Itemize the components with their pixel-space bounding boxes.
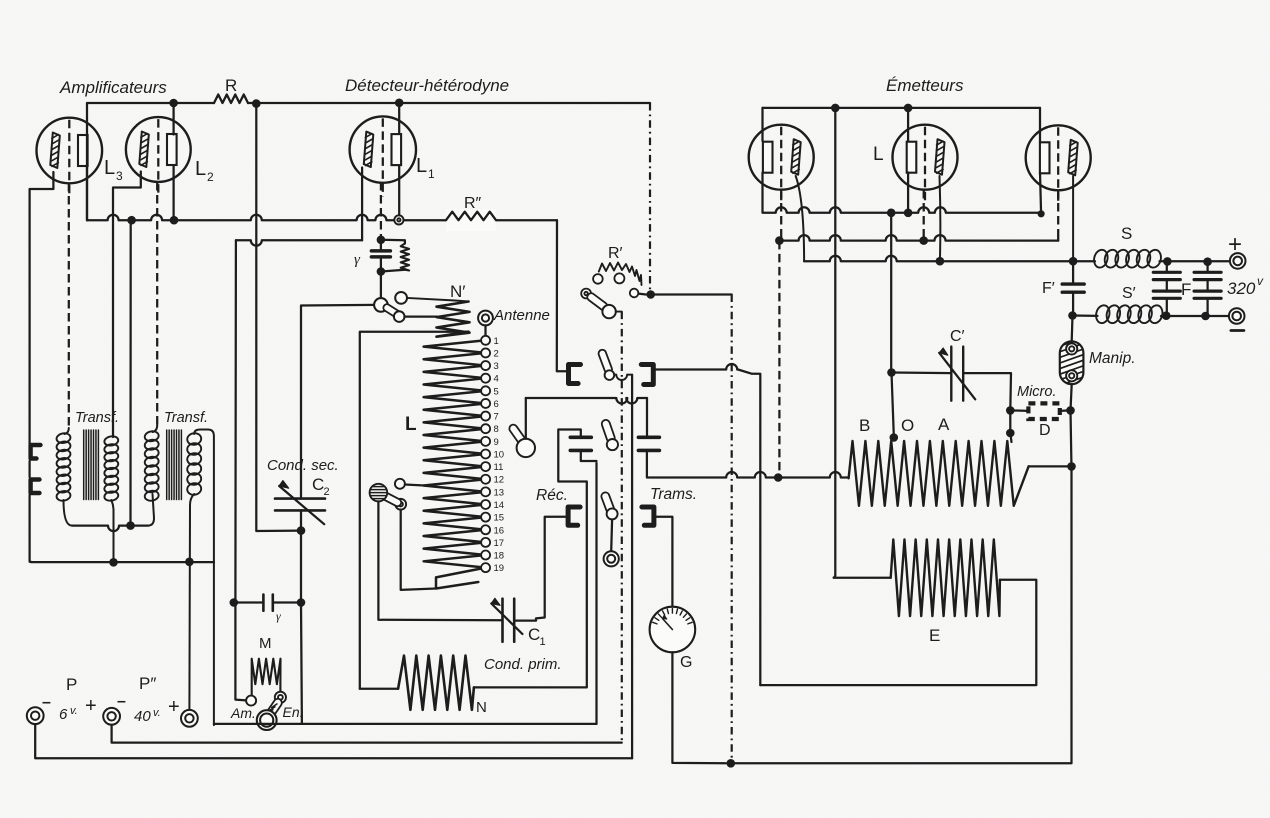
svg-text:6: 6	[59, 706, 68, 723]
svg-text:Transf.: Transf.	[75, 410, 119, 426]
switch contact ring N' lower	[394, 311, 405, 322]
wire low rail y=562	[31, 561, 214, 563]
rail P plates	[804, 256, 1073, 261]
switch lever jack row 2 with ring to Trams	[601, 492, 614, 512]
wire C2 node down to kappa node	[300, 531, 302, 603]
galvanometer G	[650, 607, 696, 653]
coil L zigzag with taps	[424, 340, 486, 588]
svg-text:Am.: Am.	[230, 705, 256, 721]
coil E	[891, 540, 1000, 617]
wire lever tip to vertical 632	[605, 370, 615, 380]
triode E3	[1026, 125, 1091, 190]
wire grid bus y=240 to L1 plate	[236, 240, 362, 245]
svg-text:N′: N′	[450, 282, 465, 301]
svg-text:40: 40	[134, 708, 151, 725]
wire L2 filament bottom to bus dot	[172, 166, 174, 221]
wire vertical 632 down to bottom bus	[631, 375, 633, 759]
wire L1 filament top	[398, 103, 400, 134]
selector lollipop circle	[517, 439, 535, 457]
wire T1 secondary bottom to low rail	[111, 500, 113, 562]
selector pivot ring	[395, 499, 406, 510]
wire L1 filament bottom to bus ring	[398, 166, 400, 215]
svg-text:8: 8	[494, 424, 499, 435]
wire D right node down	[1071, 410, 1072, 469]
svg-text:Réc.: Réc.	[536, 487, 568, 504]
svg-text:–: –	[42, 694, 51, 711]
svg-text:Cond. prim.: Cond. prim.	[484, 656, 562, 673]
switch lever Am-En	[266, 699, 282, 719]
node dot below C2	[297, 526, 306, 535]
tap circles coil L	[481, 336, 490, 345]
coil S'	[1094, 304, 1111, 325]
switch pivot circle jack row 2	[607, 508, 618, 519]
wire D leads	[1010, 409, 1028, 412]
svg-text:L: L	[873, 144, 884, 165]
capacitor Trams branch	[638, 435, 659, 439]
wire Trams jack to G meter	[654, 517, 673, 607]
node dot D left	[1006, 406, 1015, 415]
selector ball knob	[370, 484, 388, 502]
svg-text:C: C	[312, 475, 324, 494]
svg-text:C′: C′	[950, 328, 965, 345]
node dot T2-sec bottom on low rail	[185, 558, 194, 567]
wire filament bus y=220	[87, 215, 557, 220]
triode E1	[749, 125, 814, 190]
wire pivot to C2 branch	[301, 305, 374, 499]
svg-text:+: +	[85, 695, 97, 717]
switch lever jack row 1	[602, 420, 615, 442]
svg-text:Manip.: Manip.	[1089, 350, 1136, 367]
svg-text:6: 6	[494, 399, 499, 410]
node dots plus rail	[1163, 257, 1172, 266]
wire N' bottom to long left vertical	[360, 332, 469, 689]
node dot on filament bus x=131.6	[127, 216, 136, 225]
svg-text:4: 4	[494, 374, 499, 385]
resistor M	[252, 659, 281, 696]
node dot emitter bus x=908	[904, 104, 913, 113]
arrow C1	[491, 604, 522, 635]
node dot O tap	[890, 433, 899, 442]
transformer2 primary coil	[144, 430, 159, 442]
terminal P'' plus	[181, 710, 198, 727]
svg-text:10: 10	[494, 449, 505, 460]
svg-text:14: 14	[494, 500, 505, 511]
svg-text:+: +	[168, 696, 180, 718]
node dot A-coil end junction	[1067, 462, 1076, 471]
svg-text:L: L	[405, 414, 417, 435]
wire Rec-cap bottom lead	[581, 450, 597, 461]
triode L3	[37, 118, 103, 184]
wire bus2 corner down to kappa node	[234, 240, 237, 602]
wire terminal P'' to mid bus	[112, 725, 622, 743]
svg-text:2: 2	[207, 170, 214, 184]
wire branch from R-vertical to C2 node	[256, 104, 301, 531]
svg-text:15: 15	[494, 513, 505, 524]
wire C' left lead	[892, 371, 952, 374]
wire Rec jack to C1	[514, 517, 568, 621]
jack lower left	[31, 480, 40, 494]
wire L3 filament vertical	[86, 136, 88, 167]
capacitor C1	[501, 599, 504, 642]
wire top-left corner down to filament bus	[86, 103, 88, 220]
wire Trams-cap bottom to coil rail	[646, 450, 648, 476]
jack Rec	[568, 507, 580, 525]
transformer1 core	[84, 430, 99, 500]
switch lever between jack pair	[599, 350, 612, 373]
wiper lever R'	[587, 293, 607, 310]
wire L3 filament down to bus corner	[86, 167, 88, 221]
rail F filaments	[763, 207, 1042, 213]
wire G meter to bottom bus	[672, 652, 726, 763]
wire upper contact to N' coil	[407, 298, 469, 302]
wire lollipop up over to Trams cap	[526, 398, 647, 404]
node dot gamma top	[377, 236, 386, 245]
contact circle Am	[246, 696, 256, 706]
wire Manip down to D node	[1071, 384, 1072, 410]
terminal P'' minus	[103, 708, 120, 725]
switch pivot N'	[374, 298, 388, 312]
wire D left down to A tap	[1009, 410, 1011, 433]
coil N'	[437, 302, 470, 337]
wire T2 secondary bottom lead	[189, 494, 194, 710]
wire E coil right loop	[760, 580, 1036, 685]
transformer1 primary coil	[56, 432, 71, 444]
svg-text:2: 2	[324, 486, 330, 498]
svg-text:18: 18	[494, 551, 505, 562]
svg-text:E: E	[929, 626, 940, 645]
svg-text:Antenne: Antenne	[493, 307, 550, 324]
wire pivot down to ring	[610, 519, 613, 551]
wire L2 filament top	[172, 103, 174, 135]
svg-text:γ: γ	[276, 609, 281, 623]
wire E1 grid dash-dot to rails	[780, 190, 782, 241]
wiper ring R'	[581, 289, 591, 299]
switch contact circle N' upper	[395, 292, 407, 304]
node dot on filament bus x=174	[170, 216, 179, 225]
resistor R'' on filament bus	[446, 209, 496, 231]
svg-text:7: 7	[494, 412, 499, 423]
svg-text:Transf.: Transf.	[164, 410, 208, 426]
terminal minus 320V	[1229, 308, 1245, 324]
svg-text:v.: v.	[70, 705, 78, 717]
svg-text:Détecteur-hétérodyne: Détecteur-hétérodyne	[345, 76, 509, 95]
svg-text:L: L	[104, 157, 115, 179]
wire L2 grid dash-dot down to transformer2 primary	[156, 182, 158, 425]
node dot L2 filament top	[169, 99, 178, 108]
wire S'junction down to Manip	[1071, 316, 1074, 342]
wiper pivot circle R'	[602, 305, 615, 318]
wire bus3 from T2-sec to Rec-cap corner	[214, 723, 597, 725]
wire bus dot down to T1 rail	[129, 221, 131, 526]
svg-text:1: 1	[494, 336, 499, 347]
wire lower contact to N' coil tap	[405, 315, 438, 317]
wire gamma node down to switch pivot	[380, 272, 382, 299]
svg-text:17: 17	[494, 538, 505, 549]
stud circles R'	[593, 274, 603, 284]
svg-text:v: v	[1257, 274, 1264, 288]
node dots rail P	[936, 257, 945, 266]
svg-text:12: 12	[494, 475, 505, 486]
capacitor F'	[1072, 261, 1074, 283]
transformer1 secondary coil	[104, 435, 119, 446]
svg-text:En.: En.	[283, 704, 304, 720]
jack Trams	[642, 507, 654, 525]
node dot kappa right	[297, 598, 306, 607]
wire E2 filament leads	[907, 108, 909, 141]
resistor gamma leak vertical	[381, 240, 405, 244]
svg-text:P: P	[66, 675, 77, 694]
node dot on T1 rail	[126, 521, 135, 530]
coil S	[1073, 260, 1095, 262]
capacitor gamma	[371, 249, 390, 253]
svg-text:F: F	[1181, 280, 1191, 299]
svg-text:R″: R″	[464, 195, 482, 212]
svg-text:B: B	[859, 416, 870, 435]
terminal Antenne	[478, 311, 493, 326]
wire R'' corner down to jack	[557, 220, 568, 371]
wire S to plus terminal	[1160, 260, 1230, 262]
svg-text:320: 320	[1227, 279, 1256, 298]
wire 891 vertical rail F to coil O	[890, 213, 892, 373]
selector contact circle on coil L	[395, 479, 405, 489]
svg-text:9: 9	[494, 437, 499, 448]
wire C2 line T junction on bus3	[300, 603, 303, 724]
triode E2	[893, 125, 958, 190]
svg-text:11: 11	[494, 462, 504, 473]
wire E1 plate lead curving to rail P	[796, 176, 804, 261]
svg-text:1: 1	[428, 167, 435, 181]
arrow C2	[279, 486, 324, 524]
wire E3 plate lead	[1072, 176, 1074, 261]
svg-text:Amplificateurs: Amplificateurs	[59, 78, 167, 97]
node dot below D left	[1006, 429, 1015, 438]
wire E2 grid dash-dot to rail G	[923, 190, 925, 241]
node dot T1-sec on low rail	[109, 558, 118, 567]
svg-text:Trams.: Trams.	[650, 486, 697, 503]
svg-text:F′: F′	[1042, 280, 1055, 297]
wire selector ball down to C1 lead	[378, 501, 502, 620]
wire top-right corner down to R' junction	[649, 103, 651, 295]
transformer1 bottom rail	[64, 500, 73, 526]
node dots rail F	[887, 209, 896, 218]
node dot gamma bottom	[377, 267, 386, 276]
svg-text:1: 1	[540, 636, 546, 648]
wire 835 vertical down to E coil	[834, 108, 836, 576]
wire T2 secondary top lead	[194, 430, 214, 726]
selector arm lollipop near coil L	[509, 425, 525, 444]
capacitor stack F left	[1166, 261, 1168, 271]
wire A coil end to Manip vertical	[1029, 465, 1072, 467]
svg-text:P″: P″	[139, 674, 156, 693]
svg-text:S: S	[1121, 224, 1132, 243]
svg-text:Émetteurs: Émetteurs	[886, 76, 964, 95]
svg-text:O: O	[901, 416, 914, 435]
rail G grids	[779, 235, 1058, 241]
selector lever	[380, 492, 401, 506]
microphone D dashed box	[1028, 403, 1059, 419]
contact ring En	[275, 692, 286, 703]
triode L2	[126, 117, 191, 182]
wire E3 filament leads	[1039, 108, 1041, 141]
node dot bottom bus	[727, 759, 736, 768]
jack pair upper left bracket	[569, 365, 581, 384]
wire L1 grid dash-dot down to gamma node	[380, 182, 382, 237]
coil B-O-A	[849, 441, 1029, 506]
node dot S' junction	[1068, 311, 1077, 320]
svg-text:13: 13	[494, 487, 505, 498]
svg-text:v.: v.	[153, 707, 161, 719]
svg-text:3: 3	[494, 361, 499, 372]
wire selector pivot down to coil bottom	[401, 510, 436, 590]
svg-text:+: +	[1228, 231, 1242, 258]
svg-text:16: 16	[494, 525, 505, 536]
switch pivot ring Am-En	[257, 710, 277, 730]
wire C' right lead to D	[963, 373, 1011, 410]
svg-text:S′: S′	[1122, 285, 1136, 302]
svg-text:L: L	[195, 158, 206, 180]
wire antenna to tap1	[484, 325, 486, 335]
svg-text:N: N	[476, 699, 487, 716]
svg-text:L: L	[416, 155, 427, 177]
wire coil rail from Trams cap	[647, 472, 849, 478]
transformer2 core	[167, 430, 182, 500]
node dot L1 filament top	[395, 99, 404, 108]
wire R' pivot to vertical 622	[616, 311, 622, 313]
node dot C2-branch top	[252, 99, 261, 108]
svg-text:2: 2	[494, 348, 499, 359]
svg-text:Cond. sec.: Cond. sec.	[267, 457, 339, 474]
node dots rail G	[775, 236, 784, 245]
terminal ring L1 filament on bus	[394, 215, 403, 224]
wire vertical 622 down to mid bus	[621, 312, 623, 743]
capacitor C2	[275, 497, 325, 500]
wire C2 bottom to junction	[300, 510, 302, 530]
capacitor kappa vertical plates	[234, 601, 264, 603]
capacitor C'	[950, 347, 952, 401]
svg-text:C: C	[528, 625, 540, 644]
node dot C' branch	[887, 368, 896, 377]
svg-text:D: D	[1039, 422, 1051, 439]
resistor R	[214, 95, 248, 104]
wire terminal P to bottom bus	[35, 724, 632, 758]
wire L3 plate lead to left rail	[30, 172, 54, 444]
svg-text:R: R	[225, 76, 237, 95]
triode L1	[350, 116, 416, 182]
svg-text:A: A	[938, 415, 950, 434]
label minus terminal	[1231, 329, 1244, 332]
jack upper left	[31, 445, 41, 459]
wire R' output to bottom dot	[651, 293, 732, 295]
wire L2 plate lead to transformer1 secondary	[113, 172, 141, 438]
svg-text:5: 5	[494, 386, 499, 397]
rheostat R' arc	[599, 263, 642, 286]
wire L3 grid dash-dot down to transformer1 primary	[68, 183, 70, 428]
node dots minus rail	[1162, 311, 1171, 320]
switch circle jack row 1	[607, 439, 618, 450]
wire E1 filament from bus corner to rail F	[761, 108, 763, 141]
wire top bus with resistor R gap	[87, 102, 214, 104]
coil N	[398, 656, 474, 710]
terminal plus 320V	[1230, 253, 1246, 269]
capacitor stack F right	[1206, 262, 1208, 272]
node dot emitter bus x=835	[831, 104, 840, 113]
svg-text:19: 19	[494, 563, 505, 574]
node dot E1 grid on coil rail	[774, 473, 783, 482]
wire L1 plate lead down	[361, 168, 363, 241]
svg-text:–: –	[117, 693, 126, 710]
terminal P minus	[27, 707, 44, 724]
wire Rec-cap top lead	[474, 430, 587, 688]
node dot R' output	[638, 292, 646, 295]
arrow C'	[939, 353, 975, 400]
wire S' to minus terminal	[1161, 315, 1229, 317]
wire bottom bus to Manip vertical	[731, 469, 1072, 763]
transformer2 secondary coil	[186, 432, 202, 446]
wire emitter top bus	[763, 107, 1041, 109]
node dot D right	[1066, 406, 1075, 415]
wire left rail between jacks and down	[28, 461, 30, 477]
jack pair upper right bracket	[641, 365, 653, 385]
wire E3 grid dash-dot to rail G corner	[1057, 190, 1059, 236]
switch lever N'	[383, 304, 400, 318]
wire kappa node down to Am corner	[235, 603, 246, 701]
node dot kappa left	[230, 598, 239, 607]
capacitor Rec branch	[570, 435, 591, 439]
svg-text:G: G	[680, 654, 692, 671]
ring below jack row 2	[604, 551, 619, 566]
svg-text:M: M	[259, 635, 272, 652]
wire right jack to E-coil loop	[653, 364, 738, 369]
wire N coil left lead	[360, 688, 398, 690]
svg-text:Micro.: Micro.	[1017, 384, 1056, 400]
svg-text:3: 3	[116, 169, 123, 183]
svg-text:R′: R′	[608, 245, 623, 262]
wire E2 plate lead	[939, 176, 942, 261]
